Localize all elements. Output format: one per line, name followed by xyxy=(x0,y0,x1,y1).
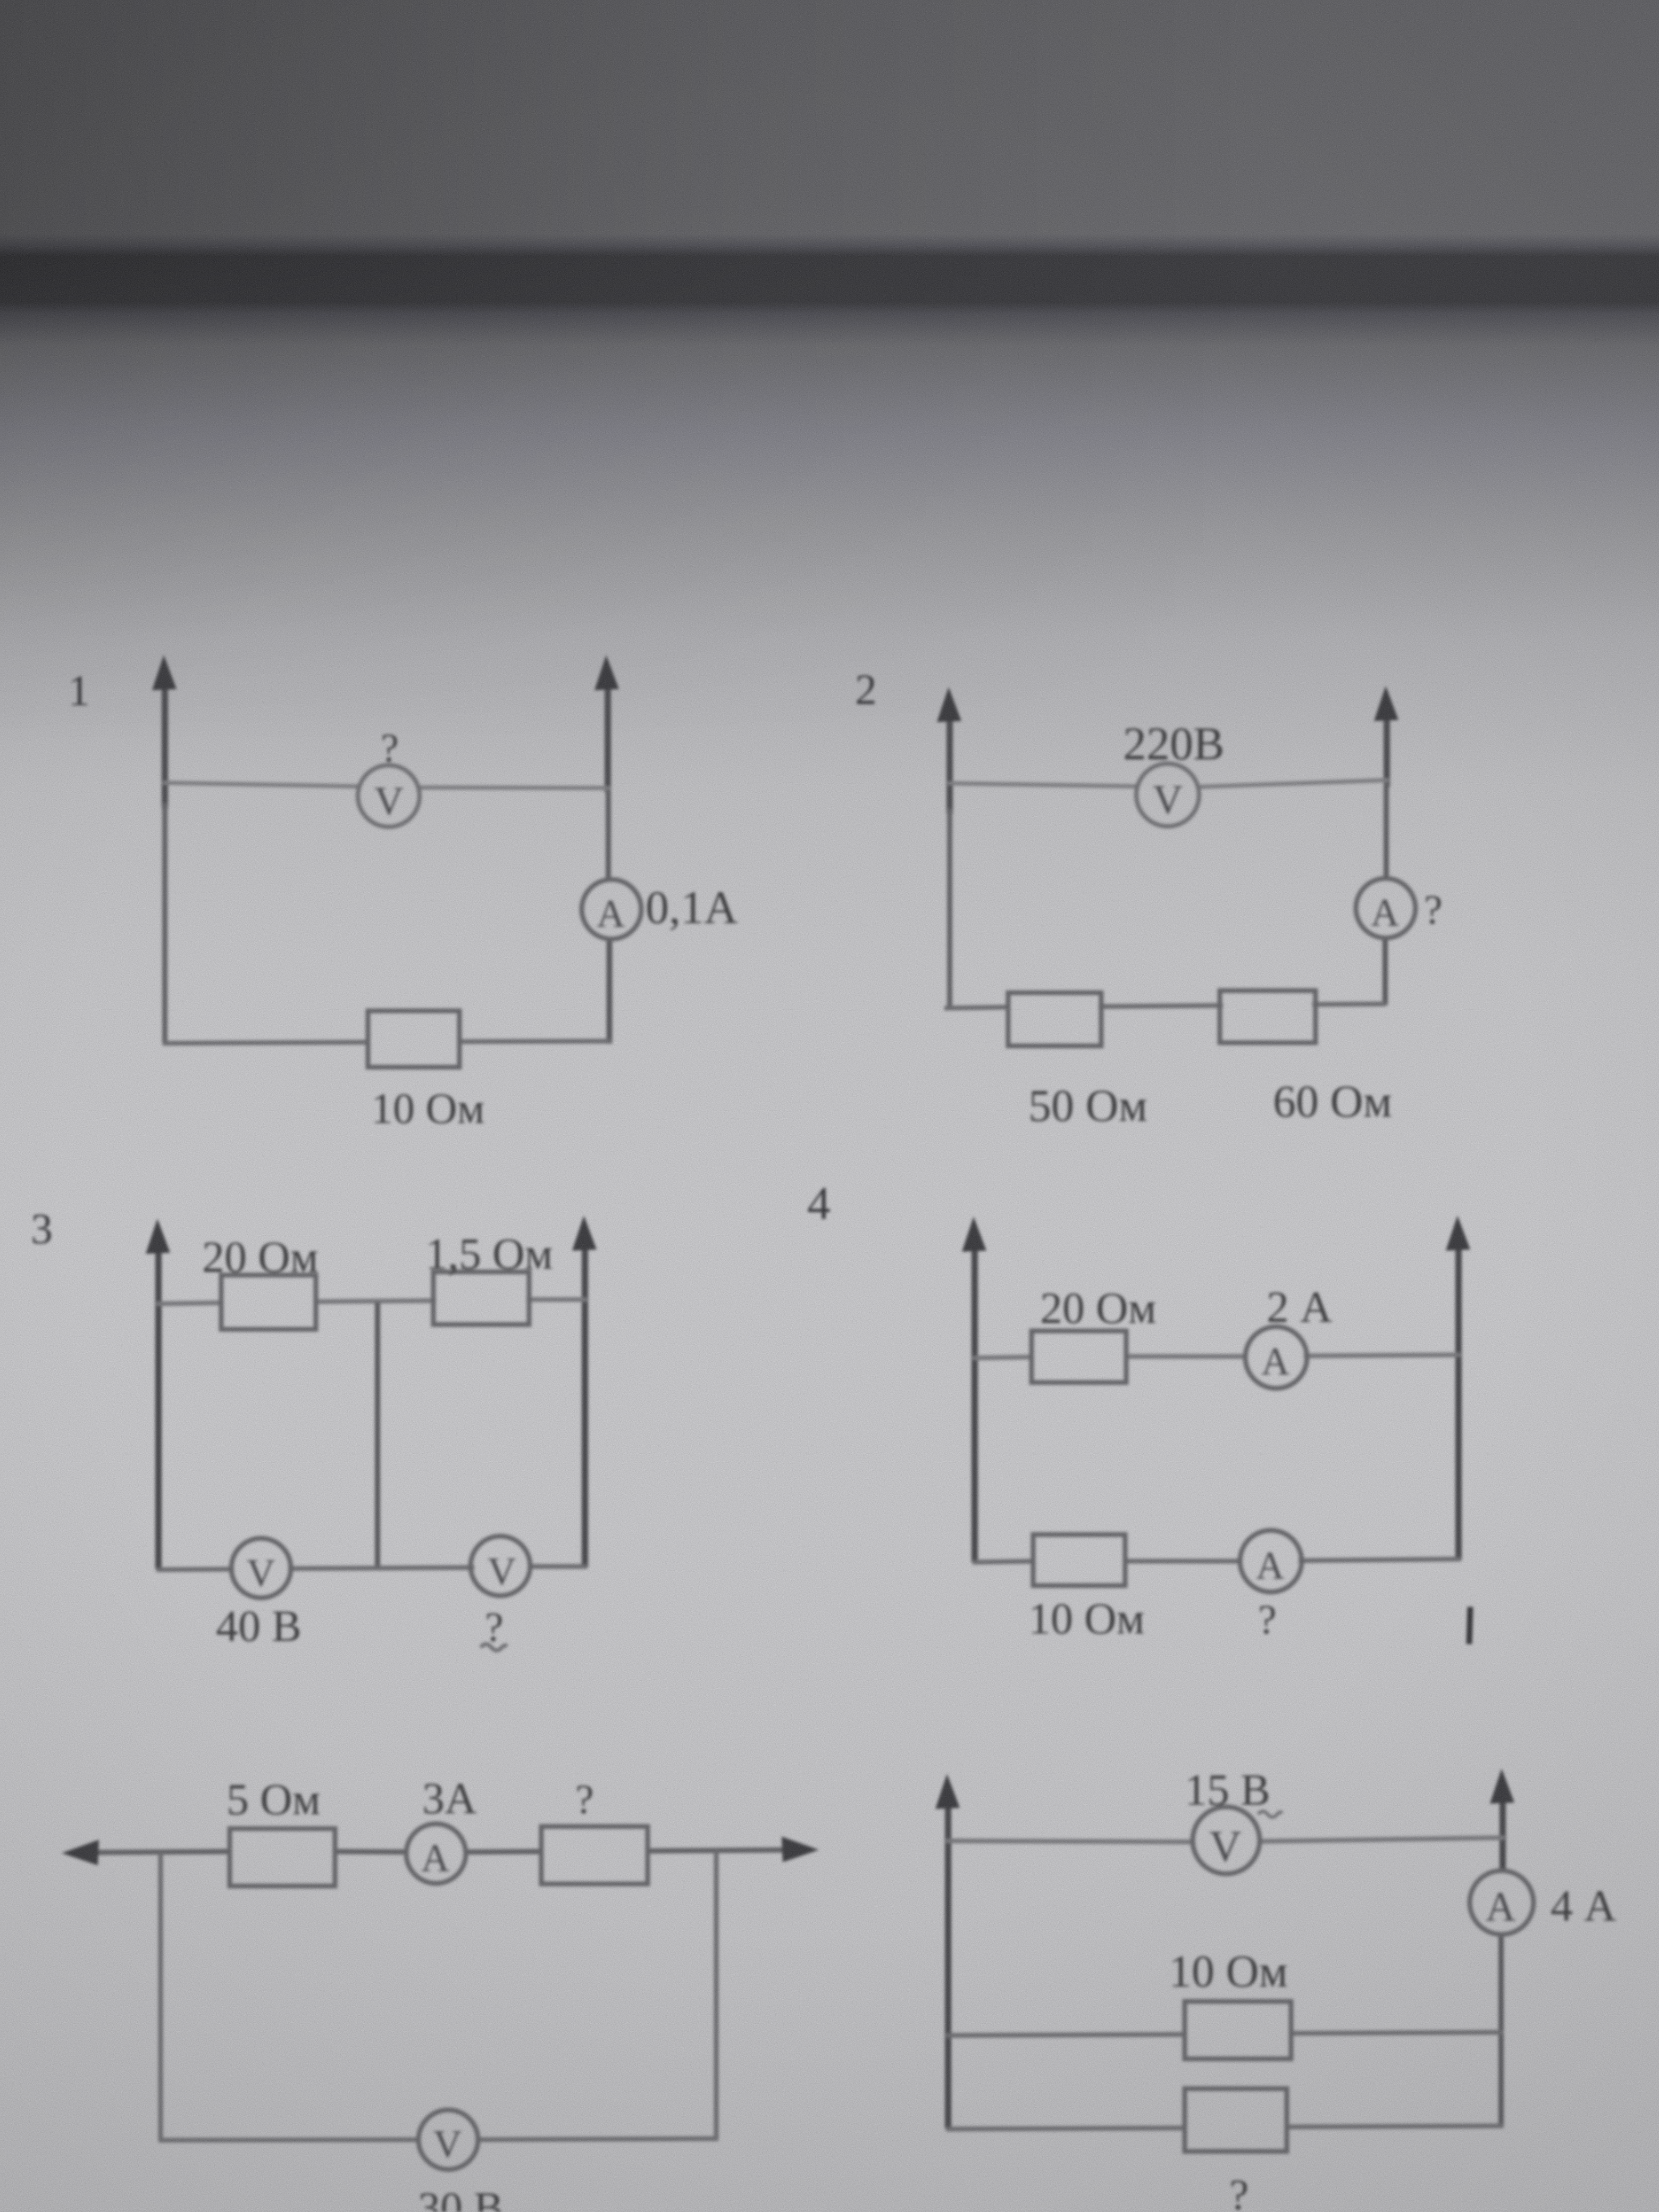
resistor R2b 60 Ом xyxy=(1220,991,1316,1043)
arrowhead right lead circuit 4 xyxy=(1446,1216,1470,1251)
arrowhead right lead circuit 1 xyxy=(594,655,619,690)
wire: bottom wire right of resistor R1 xyxy=(457,1041,611,1042)
wire: right supply lead of circuit 4 xyxy=(1455,1241,1462,1560)
arrowhead left lead circuit 3 xyxy=(146,1219,170,1254)
resistor R5a 5 Ом xyxy=(230,1829,335,1886)
wire: bottom branch left of resistor R4b xyxy=(973,1561,1035,1562)
wire: right supply lead of circuit 3 xyxy=(582,1241,588,1568)
wire: top wire left of voltmeter V1 xyxy=(163,783,359,786)
voltmeter V3b xyxy=(471,1536,530,1596)
squiggle under 15 В xyxy=(1258,1812,1283,1817)
wire: top branch left of resistor R4a xyxy=(973,1357,1034,1358)
wire: top wire left of resistor R3a xyxy=(156,1303,223,1304)
voltmeter V3a xyxy=(231,1538,291,1598)
resistor R6b unknown xyxy=(1185,2089,1287,2151)
ammeter A4b xyxy=(1240,1530,1302,1592)
arrowhead left lead circuit 4 xyxy=(962,1217,986,1252)
resistor R3a 20 Ом xyxy=(221,1275,316,1329)
arrowhead right lead circuit 2 xyxy=(1374,686,1398,721)
wire: right lead between ammeter A2 and bottom wire xyxy=(1382,936,1388,1005)
wire: top branch between R4a and ammeter A4a xyxy=(1124,1354,1247,1359)
wire: bottom wire right of resistor R6b xyxy=(1285,2126,1503,2127)
wire: bottom wire right of resistor R2b xyxy=(1312,1004,1386,1004)
wire: right supply lead of circuit 1 xyxy=(605,681,611,792)
squiggle under ? xyxy=(481,1644,507,1650)
arrowhead right lead circuit 6 xyxy=(1490,1769,1514,1804)
wire: bottom wire right of voltmeter V3b xyxy=(530,1564,587,1569)
voltmeter V2 xyxy=(1136,764,1199,826)
ammeter A6 xyxy=(1470,1871,1534,1934)
wire: main wire between A5 and R5b xyxy=(465,1851,543,1852)
resistor R4a 20 Ом xyxy=(1032,1331,1126,1382)
wire: left supply lead of circuit 2 xyxy=(946,713,953,814)
wire: top wire between R3a and R3b xyxy=(314,1301,436,1302)
arrowhead right lead circuit 3 xyxy=(572,1216,597,1251)
wire: middle branch vertical circuit 3 xyxy=(375,1303,380,1569)
wire: bottom wire left of resistor R6b xyxy=(946,2128,1187,2129)
wire: top wire right of voltmeter V2 xyxy=(1196,780,1389,787)
ammeter A4a xyxy=(1245,1327,1307,1388)
ammeter A5 xyxy=(406,1824,466,1883)
wire: top wire right of voltmeter V6 xyxy=(1259,1838,1505,1841)
voltmeter V1 xyxy=(358,765,420,827)
wire: left supply lead of circuit 1 xyxy=(162,681,168,808)
resistor R6a 10 Ом xyxy=(1185,2001,1291,2059)
wire: bottom branch between R4b and ammeter A4b xyxy=(1123,1559,1242,1564)
arrowhead left lead circuit 1 xyxy=(152,655,177,690)
wire: middle wire right of resistor R6a xyxy=(1290,2032,1503,2033)
wire: top wire right of resistor R3b xyxy=(526,1297,587,1302)
wire: top branch right of ammeter A4a xyxy=(1304,1355,1461,1356)
wire: top wire left of voltmeter V6 xyxy=(946,1841,1194,1842)
arrowhead left lead circuit 2 xyxy=(937,687,961,722)
wire: bottom wire between resistors R2a R2b xyxy=(1099,1006,1223,1007)
wire: right supply lead of circuit 2 xyxy=(1384,711,1390,787)
wire: left branch down circuit 5 xyxy=(158,1852,163,2140)
wire: main wire between R5a and ammeter A5 xyxy=(334,1851,407,1852)
wire: bottom wire left of resistor R1 xyxy=(163,1042,370,1043)
wire: bottom branch right of ammeter A4b xyxy=(1298,1559,1461,1561)
wire: right lead below ammeter A1 xyxy=(607,937,613,1044)
wire: bottom wire left of voltmeter V3a xyxy=(156,1569,234,1570)
wire: bottom wire right of voltmeter V5 xyxy=(476,2139,718,2140)
wire: top wire right of voltmeter V1 xyxy=(418,787,610,788)
wire: main wire left stub with left arrow xyxy=(89,1851,231,1853)
resistor R3b 1,5 Ом xyxy=(433,1272,529,1325)
ammeter A2 xyxy=(1356,878,1415,938)
resistor R5b unknown xyxy=(541,1826,648,1884)
wire: middle wire left of resistor R6a xyxy=(946,2034,1187,2035)
wire: bottom wire left of voltmeter V5 xyxy=(158,2140,420,2140)
arrowhead left lead circuit 6 xyxy=(935,1774,960,1809)
wire: main wire right of R5b with right arrow xyxy=(647,1850,791,1851)
resistor R2a 50 Ом xyxy=(1008,993,1101,1046)
voltmeter V5 xyxy=(418,2110,478,2169)
wire: left supply lead of circuit 3 xyxy=(155,1244,162,1569)
arrowhead right of circuit 5 xyxy=(782,1837,819,1862)
wire: bottom wire left stub circuit 2 xyxy=(944,1007,1010,1008)
ammeter A1 xyxy=(582,879,641,939)
arrowhead left of circuit 5 xyxy=(62,1840,99,1865)
wire: right lead below ammeter A6 xyxy=(1498,1933,1504,2127)
resistor R1 10 Ом xyxy=(368,1011,459,1067)
wire: left supply lead of circuit 4 xyxy=(971,1242,978,1562)
cursor bar mark xyxy=(1469,1607,1470,1644)
wire: right branch down circuit 5 xyxy=(714,1850,719,2139)
wire: left supply lead of circuit 6 xyxy=(945,1799,951,2129)
wire: right supply lead of circuit 6 xyxy=(1499,1794,1506,1872)
resistor R4b 10 Ом xyxy=(1033,1535,1125,1586)
wire: bottom wire between V3a and V3b xyxy=(288,1568,474,1569)
wire: top wire left of voltmeter V2 xyxy=(948,783,1139,786)
voltmeter V6 xyxy=(1193,1807,1260,1874)
